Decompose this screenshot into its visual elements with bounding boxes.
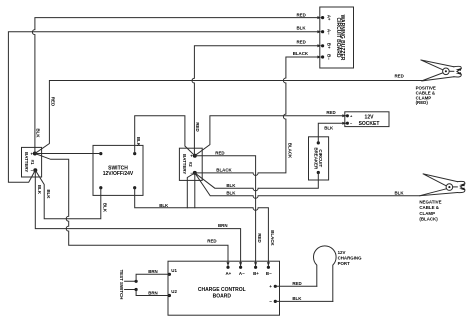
svg-text:CHARGING: CHARGING bbox=[338, 255, 362, 260]
socket pin + bbox=[342, 114, 353, 119]
svg-text:BRN: BRN bbox=[218, 223, 228, 228]
svg-text:#2: #2 bbox=[188, 162, 193, 167]
svg-text:B−: B− bbox=[326, 54, 331, 60]
svg-text:BLACK: BLACK bbox=[270, 230, 275, 246]
wire bat1+ to charge A+ RED bbox=[35, 154, 228, 267]
svg-text:BLK: BLK bbox=[395, 190, 405, 195]
svg-text:RED: RED bbox=[297, 13, 306, 18]
buzzer pin A- bbox=[317, 29, 331, 35]
svg-text:BLK: BLK bbox=[46, 189, 51, 199]
wire bat1+ to switch TL bbox=[35, 153, 101, 155]
svg-text:−: − bbox=[269, 299, 272, 304]
svg-text:WARNING BUZZER: WARNING BUZZER bbox=[339, 15, 345, 61]
svg-text:BLACK: BLACK bbox=[293, 51, 309, 56]
buzzer pin B- bbox=[317, 54, 331, 60]
svg-text:+: + bbox=[269, 284, 272, 289]
charge pin U2 bbox=[168, 289, 178, 297]
svg-text:B+: B+ bbox=[326, 43, 331, 49]
charge pin U1 bbox=[168, 268, 178, 276]
svg-text:12V: 12V bbox=[365, 115, 375, 121]
wire bat2- to negative clamp bbox=[195, 173, 420, 198]
svg-text:BLK: BLK bbox=[136, 137, 141, 147]
svg-text:RED: RED bbox=[51, 97, 56, 106]
wire U1 to test switch bbox=[136, 274, 169, 281]
buzzer pin A+ bbox=[317, 15, 331, 21]
svg-text:RED: RED bbox=[297, 40, 306, 45]
svg-text:RED: RED bbox=[395, 74, 404, 79]
svg-text:B+: B+ bbox=[253, 271, 259, 276]
svg-text:A+: A+ bbox=[326, 15, 331, 21]
svg-text:BLK: BLK bbox=[324, 126, 334, 131]
svg-text:BLK: BLK bbox=[226, 190, 236, 195]
svg-text:B−: B− bbox=[266, 271, 272, 276]
svg-text:CABLE &: CABLE & bbox=[419, 205, 439, 210]
wire bat2- to breaker bottom bbox=[195, 173, 318, 191]
wire switch TR to bat2+ bbox=[135, 116, 195, 156]
charge pin B- bbox=[266, 262, 272, 276]
negative cable clamp bbox=[419, 174, 465, 222]
charge pin +12 out bbox=[269, 284, 277, 289]
svg-text:BLK: BLK bbox=[226, 183, 236, 188]
svg-text:CLAMP: CLAMP bbox=[419, 211, 435, 216]
svg-text:BLK: BLK bbox=[292, 296, 302, 301]
wire socket to breaker top bbox=[318, 123, 346, 143]
svg-text:RED: RED bbox=[257, 233, 262, 242]
wire bat2- BLACK to buzzer B- bbox=[195, 57, 320, 175]
svg-text:BRN: BRN bbox=[148, 290, 158, 295]
12V socket J1 bbox=[345, 112, 389, 127]
wire bat2+ to buzzer B+ bbox=[192, 46, 320, 156]
svg-text:SOCKET: SOCKET bbox=[359, 121, 380, 127]
svg-text:U2: U2 bbox=[171, 289, 177, 294]
svg-text:(BLACK): (BLACK) bbox=[419, 216, 438, 221]
wire U2 to test switch bbox=[136, 290, 169, 296]
test switch S2 bbox=[119, 270, 138, 300]
wire charge gnd BLK to port bbox=[275, 300, 333, 302]
svg-text:−: − bbox=[31, 168, 34, 173]
wire switch BR to bat2- bbox=[135, 188, 269, 266]
svg-text:A−: A− bbox=[326, 29, 331, 35]
svg-text:BLK: BLK bbox=[36, 128, 41, 138]
svg-text:RED: RED bbox=[292, 281, 301, 286]
wire bat1- BRN to charge A- bbox=[35, 170, 240, 266]
socket pin - bbox=[342, 121, 353, 126]
svg-text:BRN: BRN bbox=[148, 269, 158, 274]
svg-text:BREAKER: BREAKER bbox=[314, 147, 319, 170]
svg-text:BLK: BLK bbox=[103, 203, 108, 213]
12V charging port J2 bbox=[314, 246, 363, 302]
wire bat2+ to 12V socket bbox=[195, 116, 346, 156]
svg-text:BLK: BLK bbox=[159, 203, 169, 208]
circuit breaker CB1 bbox=[309, 137, 329, 180]
svg-text:12V/OFF/24V: 12V/OFF/24V bbox=[103, 171, 134, 177]
svg-text:NEGATIVE: NEGATIVE bbox=[419, 200, 441, 205]
wire bat2+ RED to charge B+ bbox=[195, 156, 256, 266]
svg-text:PORT: PORT bbox=[338, 261, 351, 266]
warning buzzer circuit board U3 bbox=[320, 7, 354, 68]
charge pin A- bbox=[239, 262, 245, 276]
wire bat1- to switch BL bbox=[35, 170, 101, 219]
svg-text:RED: RED bbox=[207, 238, 216, 243]
switch S1 12V/OFF/24V bbox=[93, 145, 143, 195]
wire bat1- to buzzer A- bbox=[8, 32, 319, 183]
svg-text:#1: #1 bbox=[30, 160, 35, 165]
buzzer pin B+ bbox=[317, 43, 331, 49]
svg-text:A−: A− bbox=[239, 271, 245, 276]
svg-text:BOARD: BOARD bbox=[213, 293, 232, 299]
svg-text:TEST SWITCH: TEST SWITCH bbox=[119, 270, 124, 300]
charge control board U2 bbox=[168, 261, 280, 315]
wire bat1+ to buzzer A+ bbox=[32, 18, 319, 154]
svg-text:(RED): (RED) bbox=[416, 100, 429, 105]
svg-text:BLACK: BLACK bbox=[216, 168, 232, 173]
wire charge +12 RED to port bbox=[275, 285, 317, 287]
svg-text:RED: RED bbox=[195, 122, 200, 131]
svg-text:CHARGE CONTROL: CHARGE CONTROL bbox=[198, 287, 246, 293]
svg-text:A+: A+ bbox=[226, 271, 232, 276]
svg-text:U1: U1 bbox=[171, 268, 177, 273]
battery BT2 bbox=[179, 148, 202, 180]
svg-text:BATTERY: BATTERY bbox=[24, 152, 29, 172]
wire bat1+ to positive clamp bbox=[35, 81, 422, 154]
charge pin A+ bbox=[226, 262, 232, 276]
svg-text:BLK: BLK bbox=[37, 185, 42, 195]
svg-text:BLK: BLK bbox=[297, 26, 307, 31]
svg-text:RED: RED bbox=[215, 151, 224, 156]
positive cable clamp bbox=[416, 60, 462, 105]
svg-text:RED: RED bbox=[326, 110, 335, 115]
svg-text:12V: 12V bbox=[338, 250, 346, 255]
svg-text:BATTERY: BATTERY bbox=[182, 154, 187, 174]
battery BT1 bbox=[22, 147, 42, 177]
charge pin gnd out bbox=[269, 299, 277, 304]
svg-text:BLACK: BLACK bbox=[287, 143, 292, 159]
charge pin B+ bbox=[253, 262, 259, 276]
